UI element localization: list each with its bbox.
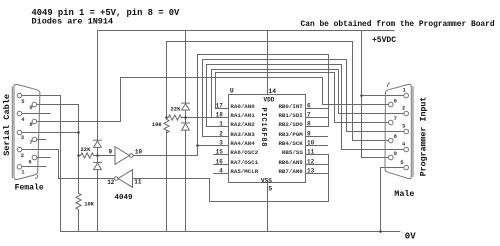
svg-text:RB0/INT: RB0/INT — [278, 103, 303, 110]
svg-text:4049: 4049 — [115, 194, 134, 202]
svg-text:17: 17 — [216, 103, 224, 110]
svg-text:RB6/AN5: RB6/AN5 — [278, 159, 303, 166]
svg-text:16: 16 — [216, 159, 224, 166]
svg-text:4: 4 — [219, 168, 223, 175]
svg-text:RB2/SDO: RB2/SDO — [278, 121, 303, 128]
svg-text:7: 7 — [307, 112, 311, 119]
svg-text:+5VDC: +5VDC — [372, 36, 396, 45]
svg-text:9: 9 — [109, 148, 113, 155]
svg-text:RB1/SDI: RB1/SDI — [278, 112, 303, 119]
svg-text:7: 7 — [394, 115, 397, 122]
svg-text:RA3/AN3: RA3/AN3 — [230, 131, 255, 138]
svg-text:22K: 22K — [81, 146, 92, 153]
svg-text:3: 3 — [219, 140, 223, 147]
svg-text:Can be obtained from the Progr: Can be obtained from the Programmer Boar… — [301, 20, 495, 29]
svg-text:14: 14 — [268, 88, 276, 95]
svg-text:9: 9 — [29, 104, 32, 111]
svg-text:12: 12 — [107, 179, 115, 186]
svg-text:2: 2 — [402, 105, 405, 112]
svg-text:Diodes are 1N914: Diodes are 1N914 — [32, 16, 114, 26]
svg-text:6: 6 — [28, 159, 31, 166]
svg-text:6: 6 — [307, 103, 311, 110]
svg-text:RA2/AN2: RA2/AN2 — [230, 121, 255, 128]
svg-text:RA0/AN0: RA0/AN0 — [230, 103, 255, 110]
svg-text:RB3/PGM: RB3/PGM — [278, 131, 303, 138]
svg-text:9: 9 — [394, 150, 397, 157]
svg-text:11: 11 — [134, 179, 142, 186]
svg-text:9: 9 — [307, 131, 311, 138]
svg-text:Serial Cable: Serial Cable — [2, 94, 12, 156]
svg-text:Programmer Input: Programmer Input — [419, 97, 428, 177]
svg-text:RA4/AN4: RA4/AN4 — [230, 140, 255, 147]
svg-text:Male: Male — [394, 189, 414, 199]
svg-text:RA5/MCLR: RA5/MCLR — [230, 168, 258, 175]
svg-text:2: 2 — [21, 152, 24, 159]
svg-text:18: 18 — [216, 112, 224, 119]
svg-text:PIC16F88: PIC16F88 — [259, 108, 267, 147]
svg-text:U: U — [230, 87, 234, 94]
svg-text:10: 10 — [307, 140, 315, 147]
svg-text:22K: 22K — [171, 105, 182, 112]
svg-text:13: 13 — [307, 168, 315, 175]
svg-text:VSS: VSS — [261, 177, 272, 184]
svg-text:RB7/AN6: RB7/AN6 — [278, 168, 303, 175]
svg-text:11: 11 — [307, 149, 315, 156]
svg-text:6: 6 — [394, 98, 397, 105]
svg-text:VDD: VDD — [264, 96, 275, 103]
svg-text:1: 1 — [219, 121, 223, 128]
svg-text:RB5/SS: RB5/SS — [282, 149, 303, 156]
svg-text:10K: 10K — [152, 121, 163, 128]
svg-text:12: 12 — [307, 159, 315, 166]
svg-text:8: 8 — [307, 121, 311, 128]
svg-text:2: 2 — [219, 131, 223, 138]
svg-text:RA1/AN1: RA1/AN1 — [230, 112, 255, 119]
svg-text:15: 15 — [216, 149, 224, 156]
svg-text:7: 7 — [29, 139, 32, 146]
svg-text:10: 10 — [135, 148, 143, 155]
svg-text:Female: Female — [15, 184, 44, 193]
svg-text:10K: 10K — [84, 201, 95, 208]
svg-text:RA7/OSC1: RA7/OSC1 — [230, 159, 258, 166]
svg-text:RA6/OSC2: RA6/OSC2 — [230, 149, 258, 156]
svg-text:5: 5 — [268, 186, 272, 193]
svg-text:0V: 0V — [405, 231, 416, 241]
svg-text:RB4/SCK: RB4/SCK — [278, 140, 303, 147]
